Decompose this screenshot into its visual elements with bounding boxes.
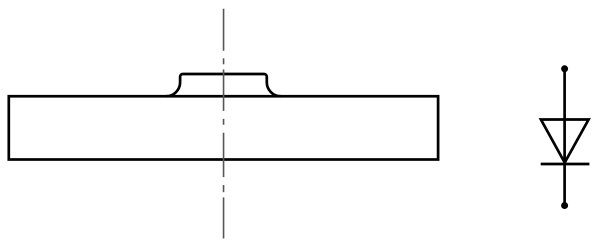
node top terminal: [561, 65, 568, 72]
wire: [223, 9, 225, 51]
centerline (vertical dash-dot chain line): [223, 9, 225, 239]
wire: [223, 69, 225, 111]
wire: [223, 185, 225, 192]
diode cathode bar: [541, 163, 590, 166]
wire: [223, 119, 225, 125]
wire: [223, 197, 225, 238]
node bottom terminal: [561, 202, 568, 209]
disc body (rectangle outline): [9, 96, 438, 159]
diode D1: [541, 69, 590, 206]
wire: [563, 69, 566, 206]
boss (raised flange on top of disc): [166, 74, 281, 96]
diode triangle (anode): [541, 120, 589, 163]
wire: [223, 133, 225, 177]
wire: [223, 58, 225, 64]
